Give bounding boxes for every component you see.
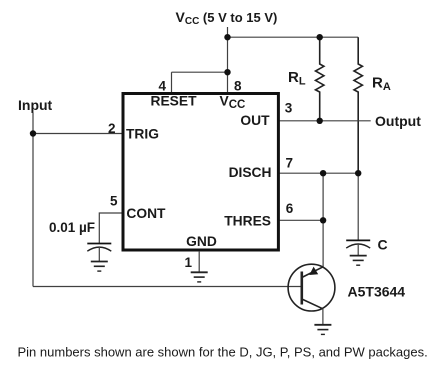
svg-text:RA: RA (372, 75, 391, 94)
svg-text:CONT: CONT (126, 206, 166, 221)
ground under 0.01 uF (91, 262, 108, 272)
junction dot DISCH / emitter (320, 170, 326, 176)
svg-text:1: 1 (184, 255, 192, 270)
svg-text:C: C (378, 237, 388, 253)
capacitor C (346, 240, 370, 255)
wire pin 4 vertical (171, 72, 173, 93)
svg-text:8: 8 (234, 79, 242, 94)
resistor RA (354, 37, 362, 173)
svg-text:DISCH: DISCH (229, 165, 272, 180)
svg-text:Output: Output (375, 113, 421, 129)
wire input vertical down (32, 134, 34, 287)
junction dot THRES (320, 217, 326, 223)
wire DISCH (pin 7) (279, 172, 359, 174)
IC box U1 (555 timer) (123, 94, 278, 251)
wire CONT (pin 5) (99, 213, 123, 244)
svg-text:VCC (5 V to 15 V): VCC (5 V to 15 V) (176, 9, 278, 27)
transistor Q1 A5T3644 (288, 264, 335, 311)
wire Input stub (32, 113, 34, 134)
wire THRES (pin 6) (279, 219, 324, 221)
wire OUT (pin 3) to Output (279, 120, 371, 122)
svg-text:3: 3 (285, 101, 293, 116)
capacitor 0.01 uF (87, 244, 111, 262)
svg-text:2: 2 (108, 121, 116, 136)
junction dot DISCH / RA (355, 170, 361, 176)
ground under C (350, 256, 367, 266)
svg-text:OUT: OUT (240, 113, 270, 128)
wire GND (pin 1) lead (198, 251, 200, 272)
wire transistor collector lead (322, 309, 324, 325)
svg-text:RL: RL (288, 69, 306, 88)
ground under transistor (314, 325, 331, 335)
junction dot VCC rail (224, 34, 230, 40)
junction dot pin4/pin8 (224, 69, 230, 75)
svg-text:5: 5 (110, 194, 118, 209)
wire TRIG (pin 2) (33, 133, 123, 135)
svg-text:Input: Input (18, 97, 53, 113)
svg-text:GND: GND (186, 234, 217, 249)
svg-text:RESET: RESET (151, 93, 198, 108)
wire RA bottom down to capacitor C (357, 173, 359, 240)
wire top rail (228, 36, 359, 38)
svg-text:4: 4 (158, 79, 166, 94)
svg-text:Pin numbers shown are shown fo: Pin numbers shown are shown for the D, J… (18, 345, 428, 360)
resistor RL (316, 37, 324, 121)
wire pin 4 horizontal (172, 71, 228, 73)
svg-text:TRIG: TRIG (126, 126, 159, 141)
svg-text:A5T3644: A5T3644 (348, 283, 406, 299)
svg-text:THRES: THRES (224, 213, 271, 228)
svg-text:7: 7 (286, 156, 294, 171)
svg-text:0.01 µF: 0.01 µF (49, 220, 95, 235)
svg-text:6: 6 (286, 201, 294, 216)
junction dot RL bottom / OUT (317, 118, 323, 124)
wire bottom horizontal to transistor base (33, 286, 302, 288)
wire DISCH junction down to transistor emitter (322, 173, 324, 267)
junction dot Input / TRIG (30, 130, 36, 136)
ground under pin 1 (191, 272, 208, 282)
wire VCC vertical to pin 8 (227, 27, 229, 94)
junction dot RL top (317, 34, 323, 40)
